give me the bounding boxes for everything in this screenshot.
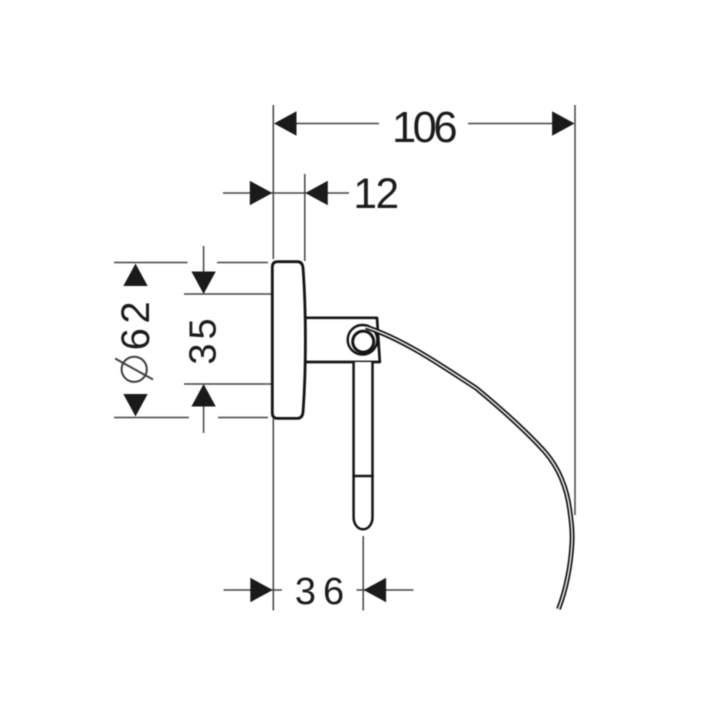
dimension line 36 right segment bbox=[357, 589, 414, 591]
extension line: diameter bottom bbox=[114, 417, 268, 419]
svg-text:62: 62 bbox=[114, 297, 158, 351]
extension line: right reference for 106 bbox=[574, 105, 576, 515]
wall plate (escutcheon, side view) bbox=[272, 262, 305, 419]
diameter symbol circle bbox=[122, 357, 147, 382]
extension line: right reference for 12 bbox=[304, 174, 306, 261]
extension line: 35 top bbox=[184, 293, 272, 295]
svg-text:35: 35 bbox=[183, 314, 225, 364]
extension line: wall plane (left reference), lower part bbox=[272, 419, 274, 611]
post joint line bbox=[352, 475, 373, 478]
pivot bold ring bbox=[353, 331, 374, 352]
arrowhead 12 right (points left) bbox=[305, 181, 328, 205]
arrowhead 36 left (points right at wall line) bbox=[250, 578, 272, 602]
svg-text:36: 36 bbox=[295, 571, 351, 613]
arrowhead dia62 bottom (points down) bbox=[123, 394, 147, 417]
extension line: 35 bottom bbox=[184, 383, 272, 385]
wire white core bbox=[366, 327, 572, 609]
dimension line 106 right segment bbox=[468, 123, 555, 125]
centerline of post bbox=[362, 536, 364, 611]
arrowhead 36 right (points left at centerline) bbox=[364, 578, 387, 602]
dimension line 106 left segment bbox=[296, 123, 379, 125]
svg-text:106: 106 bbox=[392, 104, 456, 152]
diameter symbol slash bbox=[115, 359, 153, 380]
arm (bracket) bbox=[302, 318, 380, 362]
dimension line 36 left segment bbox=[224, 589, 283, 591]
wire (curved holder bar) black outline bbox=[366, 327, 572, 609]
svg-text:12: 12 bbox=[353, 171, 397, 218]
post (roll holder rod) bbox=[354, 362, 373, 529]
arrowhead 106 left bbox=[274, 111, 297, 135]
arrowhead 35 top (points down at line) bbox=[191, 272, 215, 295]
wire outer loop around pivot bbox=[348, 325, 378, 355]
arrowhead 106 right bbox=[552, 111, 575, 135]
arrowhead dia62 top (points up) bbox=[123, 264, 147, 287]
arrowhead 12 left (points right at wall line) bbox=[250, 181, 272, 205]
dimension line 12 bbox=[223, 192, 349, 194]
arrowhead 35 bottom (points up at line) bbox=[191, 384, 215, 407]
extension line: diameter top bbox=[114, 262, 268, 264]
dimension tail 35 top bbox=[203, 246, 205, 276]
dimension tail 35 bottom bbox=[203, 403, 205, 433]
extension line: wall plane (left reference), upper part bbox=[272, 105, 274, 259]
